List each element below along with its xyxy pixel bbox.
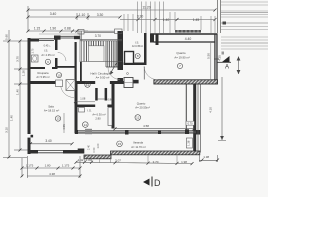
svg-text:3.70: 3.70 bbox=[153, 160, 159, 164]
svg-text:1.38: 1.38 bbox=[203, 155, 209, 159]
svg-text:D: D bbox=[154, 178, 161, 188]
svg-text:13: 13 bbox=[56, 117, 60, 121]
svg-text:A=3.35m²: A=3.35m² bbox=[132, 44, 143, 48]
svg-text:12: 12 bbox=[136, 116, 140, 120]
svg-text:A= 6.30 m²: A= 6.30 m² bbox=[92, 113, 105, 117]
svg-text:1.08: 1.08 bbox=[80, 97, 86, 101]
svg-text:A= 11.70 m²: A= 11.70 m² bbox=[131, 145, 146, 149]
svg-text:1.70: 1.70 bbox=[31, 48, 34, 53]
svg-text:1.175: 1.175 bbox=[26, 164, 34, 168]
svg-text:1.40: 1.40 bbox=[163, 18, 170, 22]
svg-text:Rouparia: Rouparia bbox=[38, 71, 49, 75]
svg-text:4.38: 4.38 bbox=[49, 172, 55, 176]
svg-text:0.50: 0.50 bbox=[93, 147, 96, 152]
svg-text:10: 10 bbox=[57, 73, 61, 77]
svg-text:14: 14 bbox=[84, 123, 88, 127]
svg-text:1.00: 1.00 bbox=[86, 158, 92, 162]
svg-text:4.25: 4.25 bbox=[217, 55, 221, 61]
svg-text:5.50: 5.50 bbox=[207, 53, 211, 59]
svg-text:11.20: 11.20 bbox=[142, 6, 150, 10]
svg-text:3.30: 3.30 bbox=[137, 15, 144, 19]
svg-text:3.07: 3.07 bbox=[115, 158, 121, 162]
svg-text:A= 4.35 m²: A= 4.35 m² bbox=[41, 53, 54, 57]
svg-text:1.00: 1.00 bbox=[97, 143, 100, 148]
svg-text:0.60: 0.60 bbox=[5, 34, 9, 40]
svg-text:4.58: 4.58 bbox=[143, 124, 149, 128]
svg-text:A= 19.90 m²: A= 19.90 m² bbox=[174, 56, 189, 60]
svg-text:A= 9.50 m²: A= 9.50 m² bbox=[96, 75, 110, 79]
svg-text:3.70: 3.70 bbox=[95, 34, 101, 38]
svg-text:2.40: 2.40 bbox=[87, 144, 90, 149]
svg-text:3.30: 3.30 bbox=[97, 13, 104, 17]
svg-text:1.40: 1.40 bbox=[10, 115, 14, 121]
svg-text:0.70: 0.70 bbox=[188, 121, 194, 125]
svg-text:3.70: 3.70 bbox=[16, 56, 20, 62]
svg-text:3.40: 3.40 bbox=[50, 12, 57, 16]
svg-text:1.42: 1.42 bbox=[78, 158, 84, 162]
svg-text:11: 11 bbox=[86, 83, 89, 87]
svg-text:1.80: 1.80 bbox=[45, 164, 51, 168]
svg-text:0.88: 0.88 bbox=[64, 27, 70, 31]
svg-text:A= 5.95 m²: A= 5.95 m² bbox=[36, 75, 49, 79]
svg-text:Quarto: Quarto bbox=[176, 51, 186, 55]
svg-text:1.45: 1.45 bbox=[193, 18, 200, 22]
svg-text:I.S.: I.S. bbox=[44, 49, 48, 53]
svg-text:4.40: 4.40 bbox=[185, 37, 192, 41]
svg-text:1.38: 1.38 bbox=[187, 140, 191, 146]
svg-text:0.88: 0.88 bbox=[107, 98, 113, 102]
svg-text:1.30: 1.30 bbox=[22, 70, 26, 76]
svg-text:A: A bbox=[225, 65, 229, 71]
svg-text:3.10: 3.10 bbox=[5, 127, 9, 133]
svg-text:1.40: 1.40 bbox=[16, 89, 20, 95]
svg-text:Varanda: Varanda bbox=[133, 140, 143, 144]
svg-text:1.175: 1.175 bbox=[62, 164, 70, 168]
svg-text:A= 20.55m²: A= 20.55m² bbox=[135, 106, 150, 110]
svg-text:1.90: 1.90 bbox=[50, 27, 56, 31]
svg-text:1.15: 1.15 bbox=[34, 27, 40, 31]
svg-text:A= 18.15 m²: A= 18.15 m² bbox=[44, 109, 59, 113]
svg-text:15: 15 bbox=[118, 142, 122, 146]
svg-text:I.S.: I.S. bbox=[87, 109, 91, 113]
svg-text:0.45 ▵: 0.45 ▵ bbox=[44, 45, 52, 48]
svg-text:1.10: 1.10 bbox=[79, 13, 86, 17]
svg-text:2.80: 2.80 bbox=[95, 117, 101, 121]
svg-text:4.10: 4.10 bbox=[209, 107, 213, 113]
svg-text:3.40: 3.40 bbox=[45, 139, 51, 143]
svg-text:1.98: 1.98 bbox=[181, 160, 187, 164]
svg-text:I.S.: I.S. bbox=[135, 41, 139, 45]
